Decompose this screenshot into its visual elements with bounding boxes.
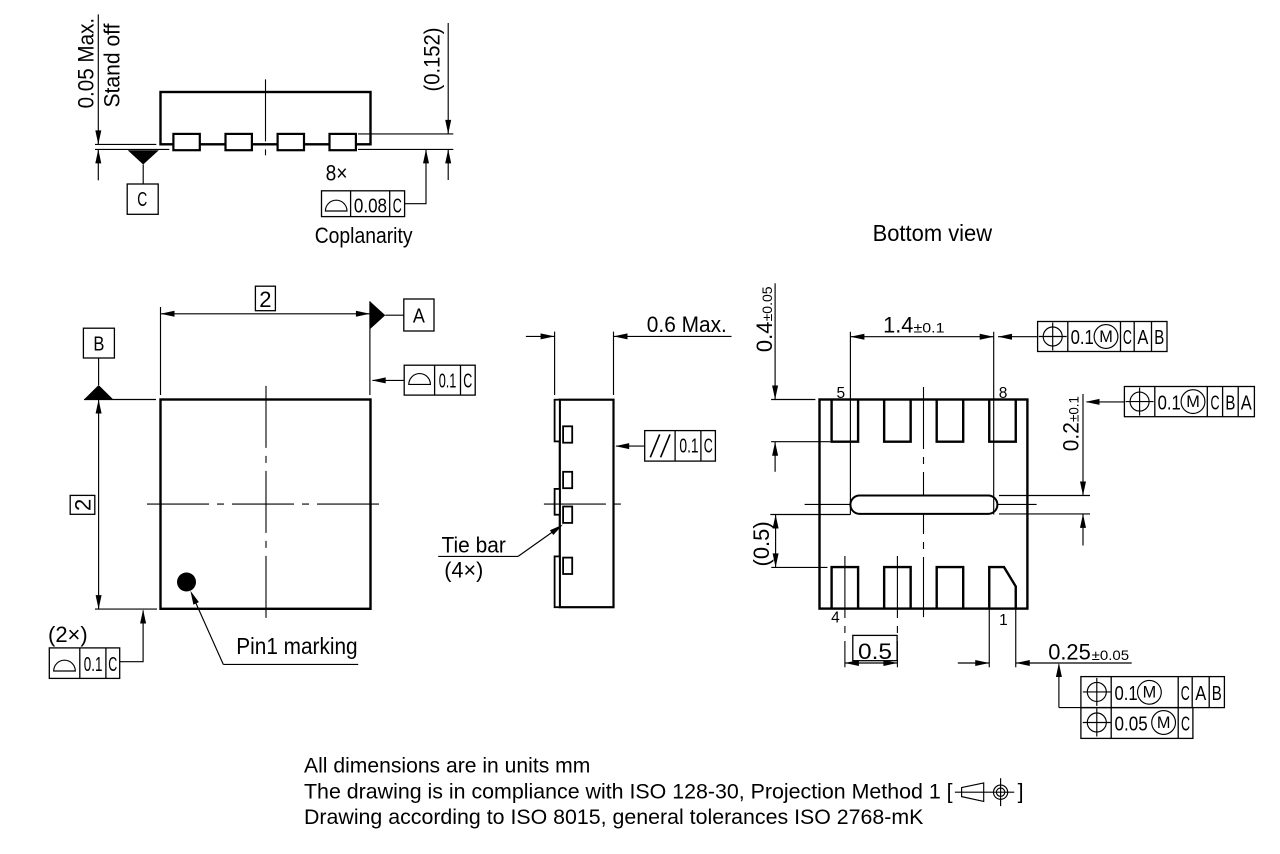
svg-text:±0.1: ±0.1 [1066,396,1082,422]
svg-text:0.05 Max.: 0.05 Max. [74,18,99,109]
datum B box [83,328,114,358]
svg-text:B: B [1212,683,1222,705]
svg-text:]: ] [1018,779,1024,803]
svg-text:M: M [1186,393,1200,411]
svg-text:4: 4 [831,610,840,627]
dim 0.4: dimension line [774,283,776,399]
profile FCF (right of top view) [404,365,475,395]
vertical dim 2: dimension line [98,400,100,610]
(0.152) dimension line [447,23,449,134]
svg-text:0.5: 0.5 [858,639,892,664]
vertical centerline [265,79,267,155]
dim 0.2: dimension line [1082,394,1084,496]
SIDE PROFILE VIEW (middle) [438,312,731,607]
tie bar leader [438,555,518,557]
datum A triangle [370,301,385,329]
svg-text:0.1: 0.1 [1071,327,1094,349]
pad 2 (bottom) [937,567,964,609]
package body outline (profile) [560,400,614,608]
svg-text:A: A [1195,683,1207,705]
dim 0.25: extension lines [988,609,990,667]
lead 1 [173,134,199,150]
svg-text:0.25: 0.25 [1048,640,1091,665]
svg-text:C: C [393,196,402,218]
FCF stack row1 position 0.1 M CAB [1081,677,1225,708]
FCF2 position 0.1 M CBA [1124,387,1254,417]
svg-text:0.2: 0.2 [1059,422,1084,451]
pin1 marking dot [177,573,196,592]
dim 0.2: extension lines [999,495,1090,497]
parallelism FCF leader [616,445,645,447]
svg-text:Coplanarity: Coplanarity [315,223,413,248]
stand-off lower arrow [97,149,99,180]
svg-text:0.4: 0.4 [752,322,777,353]
dim 0.4: extension lines [771,399,815,401]
svg-text:C: C [1181,683,1190,705]
svg-text:0.1: 0.1 [84,654,103,676]
svg-text:0.05: 0.05 [1115,714,1148,736]
horizontal centerline [805,503,1042,505]
svg-text:A: A [1137,327,1149,349]
BOTTOM VIEW (right) [749,220,1254,738]
svg-text:Tie bar: Tie bar [442,532,506,557]
boxed dim 2 (vertical) [70,495,95,514]
FCF stack row2 position 0.05 M C [1081,708,1193,739]
svg-text:(0.5): (0.5) [749,521,774,566]
svg-text:1.4: 1.4 [883,312,913,337]
svg-text:2: 2 [259,287,271,312]
pad 6 (top) [884,400,911,442]
dim 1.4: extension lines [849,332,851,515]
bottom FCF stack leader [1058,665,1060,708]
dim (0.5): dimension line [775,515,777,568]
vertical centerline [923,387,925,617]
dim (0.5): extension lines [770,514,850,516]
horizontal dim 2: dimension line [161,313,370,315]
lead 3 [278,134,304,150]
datum B triangle [84,385,113,400]
NOTES TEXT BLOCK [304,754,1024,830]
pad 1 (bottom, chamfered) [989,567,1016,609]
lead flange strip top [555,400,560,442]
pad 3 (bottom) [884,567,911,609]
svg-text:1: 1 [999,612,1008,629]
FCF2 leader [1087,401,1125,403]
svg-text:±0.05: ±0.05 [1092,647,1130,663]
svg-text:(4×): (4×) [444,558,483,583]
svg-text:C: C [1123,327,1132,349]
svg-text:5: 5 [836,385,845,402]
pad 5 (top) [832,400,859,442]
vertical centerline [265,386,267,619]
seating plane extension line (right) [358,148,453,150]
projection method symbol: cone [962,783,984,802]
svg-text:0.1: 0.1 [1115,683,1138,705]
svg-text:±0.05: ±0.05 [759,286,775,321]
svg-text:All dimensions are in units mm: All dimensions are in units mm [304,754,590,778]
horizontal centerline [147,503,384,505]
horizontal dim 2: extension lines [160,307,162,395]
svg-text:0.1: 0.1 [1158,392,1181,414]
svg-text:(0.152): (0.152) [420,28,445,92]
svg-text:0.1: 0.1 [679,436,698,458]
svg-text:M: M [1099,328,1113,346]
svg-text:8×: 8× [326,160,348,185]
svg-text:Pin1 marking: Pin1 marking [236,633,357,659]
svg-text:(2×): (2×) [48,622,88,647]
svg-text:B: B [1225,392,1235,414]
package body outline (top view) [161,400,371,609]
dim 0.25: dimension lines [958,662,989,664]
coplanarity leader [405,149,426,203]
svg-text:M: M [1157,714,1171,732]
SIDE VIEW SEATING PLANE (top-left) [74,14,454,248]
stand-off dimension line [97,14,99,144]
svg-text:B: B [1154,327,1164,349]
svg-text:B: B [93,334,104,356]
svg-text:8: 8 [999,385,1008,402]
FCF leader arrow [373,379,405,381]
svg-text:A: A [413,306,426,328]
svg-text:0.1: 0.1 [439,371,457,393]
svg-text:Drawing according to ISO 8015,: Drawing according to ISO 8015, general t… [304,805,923,829]
lead 4 [330,134,356,150]
parallelism FCF [645,431,716,462]
svg-text:C: C [1211,392,1220,414]
pin1 leader [193,596,224,665]
datum C triangle [128,150,159,164]
svg-text:0.6 Max.: 0.6 Max. [647,312,727,337]
datum A box [404,299,434,331]
datum C box [127,184,158,214]
vertical dim 2: extension lines [84,399,156,401]
boxed dim 0.5 [853,635,897,660]
projection symbol centerline [955,791,1014,793]
svg-text:C: C [704,436,713,458]
svg-text:Bottom view: Bottom view [873,220,993,246]
pad 8 (top) [989,400,1016,442]
seating plane extension line (left) [95,148,169,150]
coplanarity feature control frame [322,191,405,217]
svg-text:Stand off: Stand off [100,23,125,108]
pad 4 (bottom) [832,567,859,609]
body bottom plane extension line (left) [95,143,156,145]
svg-text:C: C [108,654,117,676]
svg-text:M: M [1143,684,1157,702]
boxed dim 2 (horizontal) [255,286,275,311]
svg-text:±0.1: ±0.1 [914,320,945,336]
dim 1.4: dimension line [850,336,993,338]
pad 4 centerline [844,556,846,667]
svg-text:C: C [1181,714,1190,736]
dim 0.5: dimension line with arrows [845,662,898,664]
exposed pad slot [850,496,997,514]
svg-text:C: C [137,189,147,211]
pad 7 (top) [937,400,964,442]
dim 0.6 Max: dimension lines with arrows [526,335,555,337]
FCF leader [120,611,143,662]
lead top extension line (right) [358,133,453,135]
svg-text:C: C [463,371,472,393]
svg-text:2: 2 [70,499,95,511]
pad 3 centerline [896,556,898,667]
dim 0.6 Max: extension lines [554,332,556,395]
projection symbol target circle [994,785,1008,799]
lead 2 [226,134,252,150]
tie bar 3 [563,507,572,523]
package body outline (side view) [161,92,371,144]
FCF1 position 0.1 M CAB [1038,322,1167,352]
lead flange strip middle [555,489,560,515]
horizontal centerline [544,503,625,505]
tie bar 1 [563,426,572,442]
datum C stem [142,165,144,185]
svg-text:A: A [1241,392,1253,414]
svg-text:0.08: 0.08 [354,196,387,218]
FCF1 leader [998,336,1038,338]
lead flange strip bottom [555,556,560,607]
TOP VIEW (left square) [48,286,475,678]
tie bar 2 [563,472,572,488]
tie bar 4 [563,558,572,574]
svg-text:The drawing is in compliance w: The drawing is in compliance with ISO 12… [304,779,953,803]
package body outline (bottom view) [820,400,1028,609]
